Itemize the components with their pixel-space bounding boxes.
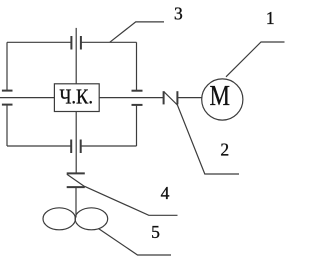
coupling right bars xyxy=(132,91,143,105)
svg-text:3: 3 xyxy=(174,4,183,24)
wire top-left horizontal segment xyxy=(7,41,71,43)
mixer left ellipse xyxy=(43,208,75,230)
mixer right ellipse xyxy=(75,208,108,230)
label 2 xyxy=(220,140,229,160)
wire right vertical lower segment xyxy=(136,105,138,146)
wire bottom-left horizontal segment xyxy=(7,145,71,147)
motor M label xyxy=(209,81,230,112)
label 5 xyxy=(151,222,160,242)
svg-text:4: 4 xyxy=(161,183,170,203)
svg-text:2: 2 xyxy=(220,140,229,160)
shaft bottom vertical (clutch 4 to mixer) xyxy=(75,188,77,218)
label 4 xyxy=(161,183,170,203)
svg-text:1: 1 xyxy=(266,8,275,28)
coupling left bars xyxy=(2,91,13,105)
clutch 4 bars (bottom) xyxy=(67,173,85,187)
shaft bottom vertical (box to clutch 4) xyxy=(75,111,77,172)
clutch 2 blade xyxy=(164,91,178,105)
wire bottom-right horizontal segment xyxy=(81,145,137,147)
wire top-right horizontal segment xyxy=(81,41,137,43)
shaft top vertical (through top coupling to box) xyxy=(75,28,77,84)
shaft right horizontal segment switch-to-motor xyxy=(177,97,201,99)
motor M circle xyxy=(202,79,243,120)
label 3 xyxy=(174,4,183,24)
leader line to label 3 xyxy=(110,22,164,42)
leader line to label 4 xyxy=(85,186,178,215)
leader line to label 2 xyxy=(177,104,239,174)
wire left vertical upper segment xyxy=(6,42,8,90)
svg-text:М: М xyxy=(209,81,230,112)
clutch 4 blade xyxy=(67,174,85,186)
svg-text:Ч.К.: Ч.К. xyxy=(59,85,93,109)
svg-text:5: 5 xyxy=(151,222,160,242)
block CHK label xyxy=(59,85,93,109)
wire left vertical lower segment xyxy=(6,105,8,146)
leader line to label 5 xyxy=(98,229,171,256)
wire right vertical upper segment xyxy=(136,42,138,90)
coupling bottom bars xyxy=(71,140,81,154)
label 1 xyxy=(266,8,275,28)
block CHK box xyxy=(54,84,99,112)
shaft left horizontal (through left coupling to box) xyxy=(0,97,54,99)
leader line to label 1 xyxy=(226,42,285,77)
clutch 2 bars (near motor) xyxy=(164,91,178,104)
shaft right horizontal segment box-to-switch xyxy=(99,97,163,99)
coupling top bars xyxy=(71,36,81,50)
